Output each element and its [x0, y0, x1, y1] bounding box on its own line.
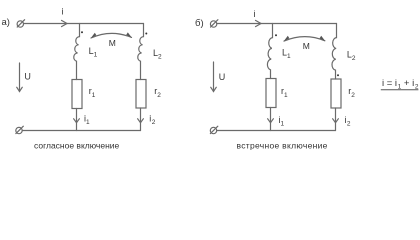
- svg-text:i: i: [62, 6, 64, 16]
- svg-text:U: U: [219, 72, 226, 82]
- svg-text:б): б): [195, 18, 204, 29]
- svg-text:согласное включение: согласное включение: [34, 140, 120, 150]
- svg-text:встречное включение: встречное включение: [237, 140, 328, 150]
- svg-text:i = i1 + i2: i = i1 + i2: [382, 78, 419, 91]
- svg-text:M: M: [109, 38, 116, 48]
- svg-text:M: M: [303, 41, 310, 51]
- svg-text:U: U: [24, 71, 31, 81]
- svg-text:i: i: [254, 9, 256, 19]
- svg-text:а): а): [2, 17, 10, 28]
